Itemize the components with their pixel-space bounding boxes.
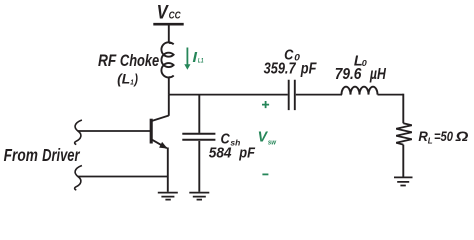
ground below RL bbox=[394, 177, 413, 185]
transistor Q1 emitter arrowhead bbox=[159, 142, 168, 149]
wire emitter vertical bbox=[167, 148, 169, 192]
svg-text:Ω: Ω bbox=[455, 129, 469, 145]
svg-text:From: From bbox=[4, 146, 38, 165]
svg-text:R: R bbox=[418, 129, 428, 145]
svg-text:RF: RF bbox=[98, 52, 117, 70]
svg-text:(L: (L bbox=[117, 72, 130, 87]
break squiggle on lower wire bbox=[75, 166, 82, 191]
wire base from driver bbox=[78, 130, 151, 132]
wire node horizontal to C0 bbox=[169, 94, 288, 96]
transistor Q1 emitter diagonal bbox=[152, 140, 167, 148]
inductor L1 (RF choke) bbox=[161, 42, 173, 77]
svg-text:pF: pF bbox=[300, 60, 318, 78]
wire lower from driver bbox=[78, 176, 168, 178]
svg-text:µH: µH bbox=[369, 65, 387, 83]
wire L1 to collector node bbox=[168, 78, 170, 95]
svg-text:Choke: Choke bbox=[120, 53, 159, 71]
wire C0 to L0 bbox=[296, 94, 342, 96]
svg-text:V: V bbox=[157, 1, 170, 23]
svg-text:584: 584 bbox=[209, 145, 232, 162]
wire L0 to corner bbox=[378, 94, 404, 96]
inductor L0 coil bbox=[342, 87, 378, 95]
svg-text:I: I bbox=[193, 49, 198, 65]
capacitor C_sh plates bbox=[182, 134, 215, 140]
svg-text:79.6: 79.6 bbox=[335, 66, 362, 83]
current arrow I_L1 bbox=[184, 48, 190, 70]
svg-text:L1: L1 bbox=[198, 58, 204, 65]
svg-text:V: V bbox=[258, 129, 269, 145]
Vcc supply bar bbox=[153, 23, 183, 26]
svg-text:359.7: 359.7 bbox=[264, 60, 297, 78]
svg-text:sw: sw bbox=[268, 139, 277, 146]
transistor Q1 collector diagonal bbox=[152, 116, 169, 121]
wire RL to ground bbox=[402, 145, 404, 177]
svg-text:Driver: Driver bbox=[42, 146, 80, 166]
wire right vertical to RL bbox=[402, 94, 404, 124]
ground below emitter bbox=[158, 193, 178, 200]
svg-text:=50: =50 bbox=[434, 128, 453, 145]
transistor Q1 base bar bbox=[150, 119, 153, 144]
break squiggle on base wire bbox=[75, 120, 82, 145]
capacitor C0 plates bbox=[289, 80, 295, 110]
label plus polarity bbox=[262, 101, 269, 108]
svg-text:L: L bbox=[428, 136, 433, 145]
ground below C_sh bbox=[189, 193, 209, 200]
wire Vcc to L1 bbox=[168, 26, 170, 44]
wire C_sh top lead bbox=[198, 95, 200, 133]
wire collector lead vertical bbox=[168, 95, 170, 116]
label minus polarity bbox=[262, 173, 268, 175]
svg-text:pF: pF bbox=[238, 145, 255, 161]
svg-text:CC: CC bbox=[169, 10, 181, 21]
svg-text:0: 0 bbox=[362, 58, 367, 68]
resistor RL zigzag bbox=[396, 123, 412, 144]
wire C_sh bottom lead bbox=[198, 141, 200, 192]
